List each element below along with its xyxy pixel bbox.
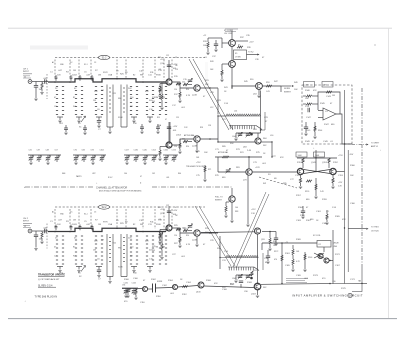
resistor R168 xyxy=(326,214,328,220)
transistor Q154 xyxy=(194,136,200,142)
wire xyxy=(30,159,32,162)
transistor Q234 xyxy=(194,230,200,236)
wire xyxy=(157,124,159,127)
variable capacitor C145 xyxy=(143,158,147,160)
wire supply rail a lower xyxy=(344,228,346,284)
wire xyxy=(56,159,58,162)
wire gang link S2 at x126 xyxy=(125,209,127,229)
capacitor Cx66 xyxy=(64,128,68,130)
ground xyxy=(83,133,86,135)
wire xyxy=(314,122,316,130)
svg-text:+12V: +12V xyxy=(173,126,178,128)
wire divider rail x107 xyxy=(106,234,108,277)
wire ladder to Q153 xyxy=(169,122,171,142)
ground xyxy=(125,163,128,165)
wire xyxy=(326,210,328,214)
transistor Q33 xyxy=(229,40,236,47)
svg-text:47: 47 xyxy=(175,207,177,209)
resistor R53 xyxy=(266,85,272,87)
wire Q43 to bus xyxy=(231,67,233,88)
wire xyxy=(207,38,209,42)
resistor R1530 xyxy=(159,150,161,156)
svg-text:INVERT: INVERT xyxy=(284,92,292,94)
ground xyxy=(134,298,137,300)
capacitor C172 xyxy=(266,256,270,258)
switch S1 contact column x166 xyxy=(165,87,167,115)
wire xyxy=(149,117,151,120)
switch S2 contact column x96 xyxy=(95,236,97,264)
wire underline xyxy=(38,275,65,277)
wire xyxy=(215,40,217,44)
wire gang diagonal ch1 b xyxy=(193,59,233,130)
svg-text:C9A: C9A xyxy=(108,74,113,77)
switch S1 contact column x153 xyxy=(152,87,154,115)
switch S1 wiper xyxy=(81,116,86,122)
resistor R156 xyxy=(315,184,317,190)
wire gang diagonal ch2 c xyxy=(233,192,266,267)
svg-text:1M: 1M xyxy=(73,70,76,72)
ground xyxy=(64,133,67,135)
svg-text:S1-2: S1-2 xyxy=(102,58,108,60)
ground xyxy=(303,270,306,272)
capacitor C92 xyxy=(274,238,278,240)
ground xyxy=(156,132,159,134)
resistor R16 xyxy=(176,83,181,85)
wire cap stub xyxy=(70,228,72,230)
wire xyxy=(30,155,32,157)
wire xyxy=(332,183,334,186)
wire rail xyxy=(297,157,337,159)
svg-text:S2-2: S2-2 xyxy=(102,207,108,209)
inductor L14 ch1 peaking xyxy=(226,114,260,116)
ground xyxy=(234,139,237,141)
wire to output amp xyxy=(252,171,297,173)
wire xyxy=(84,125,86,128)
wire follower link xyxy=(172,82,194,88)
enclosure dashed box U1 xyxy=(302,85,352,144)
svg-text:1M: 1M xyxy=(93,100,96,102)
svg-text:997K: 997K xyxy=(103,72,108,74)
wire xyxy=(98,267,100,270)
switch S1 contact column x147 xyxy=(146,87,148,115)
wire shield dash-dot vertical xyxy=(361,88,363,268)
switch S1-2 label xyxy=(98,55,109,59)
svg-text:100X: 100X xyxy=(158,88,163,90)
wire xyxy=(144,155,146,157)
wire xyxy=(231,30,233,40)
wire gang diagonal ch2 a xyxy=(195,206,231,266)
ground xyxy=(40,93,43,95)
switch S2 contact column x160 xyxy=(159,236,161,264)
svg-text:1M: 1M xyxy=(162,247,165,249)
ground xyxy=(246,225,249,227)
svg-text:990K: 990K xyxy=(156,224,161,226)
svg-text:9M: 9M xyxy=(140,75,143,77)
svg-text:990: 990 xyxy=(118,98,121,100)
variable capacitor C174 xyxy=(172,158,176,160)
resistor R143 xyxy=(326,91,332,93)
wire cap stub xyxy=(55,228,57,230)
junction xyxy=(344,227,345,228)
svg-text:Q-4B: Q-4B xyxy=(192,146,197,148)
wire xyxy=(98,123,100,126)
junction xyxy=(248,156,250,158)
resistor R83 xyxy=(225,206,227,212)
wire divider rail x127 xyxy=(126,234,128,277)
resistor R96 xyxy=(269,238,271,244)
switch S1 contact column x57 xyxy=(56,87,58,115)
wire xyxy=(179,243,181,246)
svg-text:S1-1: S1-1 xyxy=(84,64,88,66)
switch S2 contacts x124 xyxy=(123,238,125,262)
transistor Q134 xyxy=(194,85,200,91)
wire xyxy=(160,146,166,148)
resistor R162 xyxy=(292,259,294,265)
junction xyxy=(329,283,331,285)
svg-text:990: 990 xyxy=(118,248,121,250)
svg-text:INPUT: INPUT xyxy=(23,71,30,73)
wire xyxy=(332,175,334,178)
svg-text:C14: C14 xyxy=(174,235,177,237)
svg-text:C166: C166 xyxy=(164,150,168,152)
junction xyxy=(209,138,211,140)
ground xyxy=(148,121,151,123)
wire Q73 emitter drop xyxy=(247,175,249,224)
junction xyxy=(217,141,218,142)
wire xyxy=(47,155,49,157)
ground xyxy=(164,163,167,165)
ground xyxy=(158,96,161,98)
svg-text:C3: C3 xyxy=(94,212,96,214)
resistor R215 xyxy=(161,244,163,250)
ground xyxy=(91,163,94,165)
svg-text:C42: C42 xyxy=(152,173,155,175)
svg-text:R51: R51 xyxy=(157,117,160,119)
wire xyxy=(275,232,277,239)
wire input shield ch1 xyxy=(46,74,48,99)
wire follower output xyxy=(200,87,218,89)
wire xyxy=(57,266,63,268)
wire gang link S1 at x164 xyxy=(163,60,165,80)
capacitor C56t xyxy=(55,77,58,78)
wire xyxy=(101,155,103,157)
wire xyxy=(159,147,161,151)
wire gang link S2 at x143 xyxy=(142,209,144,229)
wire relay out xyxy=(247,54,259,56)
junction blob xyxy=(250,133,253,136)
transistor Q123 xyxy=(172,284,177,289)
wire cap stub xyxy=(70,225,72,227)
wire comb left drop xyxy=(217,116,219,142)
wire ch2 output line xyxy=(261,283,330,286)
variable capacitor C16 xyxy=(188,80,192,82)
svg-text:Q-4B: Q-4B xyxy=(192,95,197,97)
svg-text:910K: 910K xyxy=(118,117,123,119)
ground xyxy=(34,249,37,251)
resistor R1331 xyxy=(179,92,181,98)
wire xyxy=(165,159,167,162)
junction bus xyxy=(116,228,118,230)
variable capacitor C127 xyxy=(125,158,129,160)
svg-text:LIST: LIST xyxy=(92,173,96,175)
ground xyxy=(97,276,100,278)
switch S1 contact column x160 xyxy=(159,87,161,115)
resistor R26 xyxy=(176,228,181,230)
transistor Q133 xyxy=(166,79,172,85)
wire xyxy=(35,88,37,99)
junction xyxy=(260,129,261,130)
svg-text:C12: C12 xyxy=(166,55,169,57)
transistor Q233 xyxy=(166,225,172,231)
wire cap stub xyxy=(91,225,93,227)
switch S10 contacts xyxy=(153,284,156,293)
resistor R2331 xyxy=(179,237,181,243)
wire xyxy=(219,258,221,270)
wire xyxy=(126,155,128,157)
svg-text:100X: 100X xyxy=(72,224,77,226)
wire gang link S1 at x155 xyxy=(154,60,156,80)
svg-text:C14: C14 xyxy=(174,89,177,91)
wire xyxy=(133,117,135,120)
wire xyxy=(292,245,294,249)
svg-text:INVERT: INVERT xyxy=(215,200,223,202)
svg-text:C134: C134 xyxy=(132,283,136,285)
wire divider rail x113 xyxy=(112,85,114,128)
variable capacitor C134 xyxy=(132,291,136,293)
wire ch1 amp line xyxy=(218,141,255,143)
ground xyxy=(313,137,316,139)
label input coupling xyxy=(23,223,32,227)
wire xyxy=(232,85,256,87)
dot mark xyxy=(374,44,375,45)
wire xyxy=(41,82,43,83)
wire gang diagonal ch1 a xyxy=(189,59,229,130)
variable capacitor C76 xyxy=(74,158,78,160)
capacitor C71t xyxy=(70,227,73,228)
resistor R155 xyxy=(306,180,312,182)
resistor R201 xyxy=(41,232,43,238)
wire to vertical amp xyxy=(352,144,366,146)
wire xyxy=(254,267,259,271)
wire divider rail x121 xyxy=(120,85,122,128)
wire xyxy=(329,260,333,262)
svg-text:+12V: +12V xyxy=(251,209,256,211)
wire xyxy=(261,129,266,131)
ground xyxy=(132,271,135,273)
wire bottom row xyxy=(122,288,142,290)
wire xyxy=(225,212,227,215)
wire xyxy=(133,288,135,290)
wire xyxy=(188,230,192,232)
ground xyxy=(126,296,129,298)
svg-text:R64: R64 xyxy=(263,138,266,140)
ground xyxy=(143,163,146,165)
wire xyxy=(92,155,94,157)
wire xyxy=(236,132,261,134)
wire xyxy=(188,141,192,143)
svg-text:+12V: +12V xyxy=(160,59,165,61)
wire xyxy=(38,155,40,157)
svg-text:L14: L14 xyxy=(234,111,237,113)
svg-text:R144: R144 xyxy=(318,130,322,132)
svg-text:R155: R155 xyxy=(305,191,309,193)
wire xyxy=(148,288,152,290)
wire xyxy=(173,155,175,157)
wire xyxy=(59,117,61,120)
wire cap stub xyxy=(79,228,81,230)
wire cross xyxy=(314,253,324,258)
svg-text:1M: 1M xyxy=(332,95,335,97)
wire xyxy=(41,238,43,241)
symbol sheet id xyxy=(348,293,352,297)
wire xyxy=(196,236,198,244)
wire follower link xyxy=(172,228,194,233)
wire xyxy=(78,267,80,270)
wire trimmer row xyxy=(124,154,158,156)
svg-text:R53: R53 xyxy=(200,127,203,129)
wire divider rail x107 xyxy=(106,85,108,128)
wire xyxy=(107,276,113,278)
svg-text:NORM: NORM xyxy=(284,88,290,90)
wire xyxy=(179,139,181,143)
junction xyxy=(209,87,211,89)
wire xyxy=(215,46,217,49)
wire gang link S1 at x70 xyxy=(69,60,71,80)
wire xyxy=(262,231,276,233)
svg-text:+12V: +12V xyxy=(160,209,165,211)
svg-text:ATTEN BAL: ATTEN BAL xyxy=(184,134,196,137)
wire L14 tap xyxy=(264,112,266,130)
svg-text:R22: R22 xyxy=(113,243,116,245)
ground xyxy=(58,271,61,273)
wire xyxy=(257,290,259,295)
delay line DL2 ch2 xyxy=(228,267,254,270)
wire xyxy=(47,81,49,84)
switch S1 contacts x110 xyxy=(109,88,111,112)
capacitor Cx142 xyxy=(140,127,144,129)
svg-text:R43: R43 xyxy=(210,61,213,63)
wire xyxy=(304,266,306,269)
arrow xyxy=(292,85,294,87)
junction xyxy=(329,260,330,261)
connector J1 xyxy=(28,80,32,84)
wire xyxy=(204,176,206,179)
wire xyxy=(35,231,37,235)
variable capacitor C39 xyxy=(37,158,41,160)
svg-text:PULL TO: PULL TO xyxy=(215,197,223,199)
wire supply rail b xyxy=(347,150,349,272)
wire xyxy=(165,81,167,83)
op-amp U1 xyxy=(323,108,336,120)
wire ch2 bus extension xyxy=(201,231,254,234)
wire input shield ch2 xyxy=(46,224,48,249)
wire xyxy=(221,64,223,70)
wire xyxy=(160,83,166,85)
wire xyxy=(235,40,248,42)
resistor R33 xyxy=(207,42,209,48)
switch S1 contact column x96 xyxy=(95,87,97,115)
svg-text:R14: R14 xyxy=(186,89,189,91)
junction xyxy=(231,87,232,88)
resistor R104 xyxy=(135,289,137,295)
svg-text:100X: 100X xyxy=(158,238,163,240)
wire xyxy=(159,239,161,242)
switch S2 contact column x57 xyxy=(56,236,58,264)
resistor R18 xyxy=(183,229,188,231)
terminal box T2 xyxy=(322,82,333,88)
svg-text:Q133: Q133 xyxy=(196,292,200,294)
svg-text:1M: 1M xyxy=(156,97,159,99)
wire xyxy=(159,93,161,96)
wire xyxy=(207,48,209,52)
wire xyxy=(188,84,192,86)
transistor Q83 xyxy=(229,196,235,202)
wire xyxy=(144,159,146,162)
wire switch gang S1 xyxy=(55,57,205,59)
svg-text:9M: 9M xyxy=(140,224,143,226)
ground xyxy=(178,152,181,154)
inductor L24 ch2 peaking xyxy=(226,255,258,257)
junction xyxy=(269,231,271,233)
wire xyxy=(101,159,103,162)
wire xyxy=(159,156,161,159)
switch S1 contact column x131 xyxy=(130,87,132,115)
svg-text:TYPE 3A6 PLUG-IN: TYPE 3A6 PLUG-IN xyxy=(35,295,58,298)
wire xyxy=(131,116,137,118)
switch S2 contact column x76 xyxy=(75,236,77,264)
resistor R163 xyxy=(304,254,306,260)
transistor Q93 xyxy=(254,228,260,234)
ground xyxy=(160,108,163,110)
wire xyxy=(147,116,153,118)
wire xyxy=(222,63,229,65)
svg-text:C93: C93 xyxy=(91,150,94,152)
svg-text:10X: 10X xyxy=(57,224,61,226)
ground xyxy=(58,121,61,123)
arrow to K2 xyxy=(257,54,259,56)
wire xyxy=(315,150,317,166)
wire xyxy=(83,159,85,162)
ground xyxy=(29,163,32,165)
wire xyxy=(75,159,77,162)
svg-text:S2-1: S2-1 xyxy=(84,214,88,216)
svg-text:R74: R74 xyxy=(240,152,243,154)
svg-text:Q CKT REPLACE KIT: Q CKT REPLACE KIT xyxy=(38,278,60,281)
junction blob xyxy=(250,277,253,280)
wire xyxy=(204,165,206,176)
wire input xyxy=(32,230,48,232)
junction bus xyxy=(142,231,144,233)
wire switch gang S2 xyxy=(55,206,205,208)
junction bus xyxy=(142,81,144,83)
wire xyxy=(231,202,233,220)
svg-text:C102: C102 xyxy=(100,150,104,152)
svg-text:1M: 1M xyxy=(39,89,42,91)
svg-text:C40: C40 xyxy=(124,173,127,175)
svg-text:1.5K: 1.5K xyxy=(224,251,229,253)
ground xyxy=(140,132,143,134)
wire xyxy=(256,126,262,130)
variable capacitor C84 xyxy=(238,276,242,278)
transistor Q153 xyxy=(166,142,172,148)
wire xyxy=(312,95,318,97)
svg-text:.001: .001 xyxy=(166,177,169,179)
transistor Q173 xyxy=(324,258,329,263)
svg-text:C84: C84 xyxy=(82,150,85,152)
junction bus xyxy=(78,228,80,230)
wire xyxy=(179,88,181,92)
wire xyxy=(165,228,167,232)
